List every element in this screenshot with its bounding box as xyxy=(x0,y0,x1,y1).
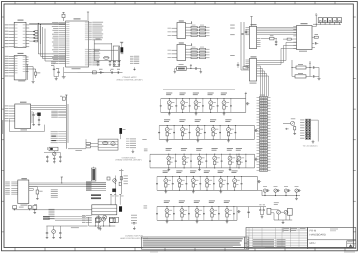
wire L from U10 bottom xyxy=(9,119,11,131)
ground for C7 C8 xyxy=(55,78,58,80)
sensor channel cell xyxy=(179,118,185,121)
sensor channel cell xyxy=(190,170,196,173)
dark net tags in stack B xyxy=(51,136,56,137)
U4 right short stubs xyxy=(257,38,261,40)
dark bar right of J4 xyxy=(119,207,122,212)
label far right xyxy=(142,138,146,141)
capacitor C15 xyxy=(99,71,101,73)
dark tags in lower stack xyxy=(43,216,50,217)
bottom middle parts row xyxy=(88,217,90,226)
row left end capacitor xyxy=(158,126,160,133)
wire to right circuit xyxy=(64,225,87,227)
circle part under J4 xyxy=(103,215,107,219)
IC U6 body xyxy=(297,26,313,50)
sensor channel cell xyxy=(204,170,210,173)
sensor channel cell xyxy=(194,200,200,203)
capacitor beside cell xyxy=(245,154,247,161)
capacitor beside cell xyxy=(199,177,201,184)
U2 right pins xyxy=(26,56,29,58)
ground under cell xyxy=(168,168,170,169)
sensor channel cell xyxy=(180,92,186,95)
row4 right extension rail xyxy=(258,189,263,191)
sensor row bottom rail xyxy=(159,138,254,140)
sensor row top rail xyxy=(150,153,255,155)
U6 right stub xyxy=(312,46,315,48)
sensor channel cell xyxy=(164,118,170,121)
resistor array RN1 beside U1 xyxy=(35,31,38,33)
capacitor beside cell xyxy=(217,99,219,106)
wire U1 to U3 row1 xyxy=(29,22,65,24)
crystal Y1 xyxy=(104,56,110,59)
frame zone ticks top xyxy=(14,2,16,5)
bus wire A2 xyxy=(42,27,44,59)
sensor channel cell xyxy=(196,147,202,150)
U9 left pins xyxy=(172,49,178,51)
U1 right pins xyxy=(26,24,29,26)
notes box xyxy=(142,237,245,249)
ground below U2 xyxy=(32,81,35,83)
faint note row xyxy=(163,88,235,91)
capacitor beside cell xyxy=(172,177,174,184)
row left end capacitor xyxy=(156,177,158,184)
box around oscillator xyxy=(49,147,58,151)
capacitor beside cell xyxy=(173,207,175,214)
vertical wire right xyxy=(120,169,122,194)
sensor row top rail xyxy=(161,98,246,100)
connector J2 long pin strip xyxy=(260,94,265,97)
capacitor C21 left of U4 xyxy=(241,33,243,35)
caps flanking Q2 xyxy=(46,226,48,233)
capacitor C14 xyxy=(93,71,97,74)
row end filter capacitor xyxy=(236,207,238,221)
U6 left pins xyxy=(293,26,296,28)
row end filter capacitor xyxy=(245,99,247,113)
top pin stubs xyxy=(110,195,112,205)
U5 left pins xyxy=(246,59,250,61)
transistor Q4 xyxy=(284,210,288,214)
wire U2 pin to pulldown xyxy=(27,64,29,80)
wire box around supervisor xyxy=(113,46,119,67)
sensor channel cell xyxy=(218,170,224,173)
capacitor beside cell xyxy=(202,99,204,106)
title block corner cell xyxy=(347,241,356,248)
U10 right stubs xyxy=(31,111,33,113)
capacitor C24 xyxy=(310,67,313,69)
sensor row top rail xyxy=(157,176,258,178)
ground under cell xyxy=(165,190,167,191)
capacitor C20 left of U4 xyxy=(245,31,247,33)
crystal Y3 ellipse xyxy=(103,141,109,144)
U2 left pins and net labels xyxy=(9,55,15,57)
ground under R31 xyxy=(36,194,38,198)
title block box xyxy=(308,228,356,249)
ground mid xyxy=(34,210,36,212)
sensor channel cell xyxy=(163,170,169,173)
wire R15 to power xyxy=(186,68,191,70)
row3 left label xyxy=(144,148,148,151)
transistor Q3 xyxy=(277,210,281,214)
small part right of J2 xyxy=(285,128,289,130)
sensor row bottom rail xyxy=(157,189,258,191)
capacitor C25 xyxy=(310,75,313,77)
sensor channel cell xyxy=(212,147,218,150)
ground under cell xyxy=(223,112,225,113)
margin zone text left xyxy=(2,120,3,134)
wire U1 pin to RN1 xyxy=(29,34,35,36)
IC U5 body xyxy=(249,59,256,82)
frame zone ticks left xyxy=(2,16,5,18)
ground right of C26 xyxy=(200,69,202,72)
resistor R12 xyxy=(296,66,306,69)
U9 top wire xyxy=(186,45,192,47)
capacitor C7 xyxy=(53,68,55,70)
resistor boxes left xyxy=(86,142,90,144)
filter capacitor on row4 extension xyxy=(295,189,298,192)
power T feeding J1 xyxy=(315,14,317,16)
svg-text:PR-M: PR-M xyxy=(310,230,317,233)
parts mid xyxy=(107,177,110,180)
IC U2 body xyxy=(14,56,26,80)
ground piezo xyxy=(282,220,284,222)
sensor row top rail xyxy=(159,125,254,127)
U11 left pins group2 xyxy=(11,187,17,189)
ground under cell xyxy=(168,112,170,113)
capacitor C40 xyxy=(13,206,17,209)
filter capacitor on row4 extension xyxy=(274,189,277,192)
IC U3 main controller body xyxy=(66,21,89,67)
resistor R15 xyxy=(177,67,187,71)
junction dots filter xyxy=(309,67,310,68)
ground under cell xyxy=(195,112,197,113)
dark part lower xyxy=(113,189,116,192)
sensor channel cell xyxy=(231,170,237,173)
wire U1 pin to RN1 xyxy=(29,37,35,39)
right labels of J4 xyxy=(131,214,137,217)
IC U1 body xyxy=(14,22,26,47)
row left end capacitor xyxy=(156,207,158,214)
sensor channel cell xyxy=(227,147,233,150)
revision table lower rows xyxy=(246,238,308,240)
ground under cell xyxy=(196,220,198,221)
revision table box xyxy=(246,228,308,249)
capacitor beside cell xyxy=(221,154,223,161)
ground bracket below label stack xyxy=(134,67,136,69)
U4 right pins to U6 bus xyxy=(257,26,297,28)
IC U10 body xyxy=(15,104,31,129)
ground bracket below xyxy=(132,150,134,152)
capacitor beside cell xyxy=(189,126,191,133)
wire U1 pin to RN1 xyxy=(29,31,35,33)
capacitor beside cell xyxy=(204,126,206,133)
capacitor beside cell xyxy=(173,126,175,133)
row left end capacitor xyxy=(149,154,151,161)
net label stack right of U7 xyxy=(130,55,134,57)
capacitor beside cell xyxy=(233,207,235,214)
capacitor beside cell xyxy=(230,99,232,106)
sensor channel cell xyxy=(236,147,242,150)
net label tags top xyxy=(91,194,101,196)
ground under cell xyxy=(166,220,168,221)
wires main controller xyxy=(90,143,98,145)
sensor channel cell xyxy=(181,147,187,150)
IC U4 body xyxy=(249,26,256,48)
IC U11 body xyxy=(18,180,29,204)
pullup R31 xyxy=(32,189,34,190)
connector J5 small xyxy=(267,208,271,214)
row left end capacitor xyxy=(160,99,162,106)
debug header 2x7 pads xyxy=(305,119,310,121)
wire U1 to U3 row2 xyxy=(29,24,65,26)
capacitor beside cell xyxy=(185,177,187,184)
capacitor C12 xyxy=(113,60,115,62)
U10 left pins xyxy=(9,105,15,107)
ground stub under U3 xyxy=(63,67,65,76)
power stub above U7 xyxy=(121,43,123,48)
sensor channel cell xyxy=(221,92,227,95)
resistor R10 xyxy=(270,37,274,40)
ground under cell xyxy=(229,168,231,169)
row end filter capacitor xyxy=(254,126,256,140)
power tap above R15 xyxy=(190,66,192,69)
svg-text:TO LCD (Bottom): TO LCD (Bottom) xyxy=(303,145,318,148)
junction wire under U11 xyxy=(13,209,92,211)
oscillator caps xyxy=(46,156,48,157)
ground under cell xyxy=(197,139,199,140)
row end filter capacitor xyxy=(254,154,256,168)
resistor R13 xyxy=(295,75,306,78)
capacitor C17 xyxy=(117,71,119,73)
sensor channel cell xyxy=(195,118,201,121)
ground under cell xyxy=(192,190,194,191)
header J1 socket boxes xyxy=(318,18,322,23)
left wires of J4 xyxy=(86,215,92,217)
sensor channel cell xyxy=(193,92,199,95)
capacitor beside cell xyxy=(203,207,205,214)
parts under J4 b xyxy=(109,217,113,222)
U3 left pins with net labels xyxy=(59,22,66,24)
capacitor beside cell xyxy=(213,177,215,184)
capacitor beside cell xyxy=(190,154,192,161)
net labels left of U4 xyxy=(230,24,235,27)
frame zone ticks right xyxy=(353,16,356,18)
oscillator wires xyxy=(46,147,48,150)
sensor row top rail xyxy=(157,206,237,208)
caption piezo xyxy=(274,201,279,204)
notes text lines xyxy=(143,238,243,239)
wire under U3 xyxy=(78,72,123,74)
wire rows to U11 xyxy=(86,182,106,184)
power arrow left xyxy=(61,177,63,180)
row5 right caps xyxy=(237,206,249,208)
sensor channel cell xyxy=(224,200,230,203)
U3 right pins lower group xyxy=(89,48,92,50)
sensor row bottom rail xyxy=(161,111,246,113)
input jack J3 circle xyxy=(291,121,295,125)
ground bottom middle xyxy=(99,226,101,229)
parts under J4 xyxy=(96,217,101,221)
capacitor C26 xyxy=(191,68,196,70)
connector J4 body xyxy=(92,205,117,215)
nested corner wires U5 to U6 lower pins xyxy=(286,41,297,43)
resistor R20 under J3 xyxy=(294,125,296,126)
polarized caps pair row5 xyxy=(249,206,266,208)
ground bracket left of R15 xyxy=(175,68,177,70)
resistor R5 vertical xyxy=(35,72,37,75)
capacitor beside cell xyxy=(219,126,221,133)
wire loop around crystal Y1 xyxy=(93,40,95,61)
polarized capacitor C16 xyxy=(111,71,113,73)
resistor R16 left of U5 xyxy=(243,67,248,70)
capacitor C10 xyxy=(97,60,99,62)
vertical bus mid-left xyxy=(65,95,67,149)
capacitor C23 right of U6 xyxy=(312,42,314,44)
sensor channel cell xyxy=(209,200,215,203)
ferrite FB1 right of U6 xyxy=(314,36,318,38)
U5 right pins to connector strip xyxy=(257,65,261,67)
row5 left label xyxy=(144,205,148,208)
sensor row bottom rail xyxy=(150,167,255,169)
debug header right wires xyxy=(311,119,319,121)
wire J1 to U6 pin xyxy=(312,26,316,28)
U8 top wire xyxy=(186,23,192,25)
sensor channel cell xyxy=(164,200,170,203)
polarized cap C42 xyxy=(33,206,37,210)
resistor R11 inline xyxy=(287,38,291,40)
capacitor C27 left of U5 xyxy=(237,64,239,66)
svg-text:(RS05) CONTROLLER (BF): (RS05) CONTROLLER (BF) xyxy=(116,159,142,162)
ground row4 extension xyxy=(296,196,298,199)
capacitor C22 with ground xyxy=(275,39,277,42)
vertical stubs through RN1 xyxy=(37,25,39,42)
IC U8 transceiver body xyxy=(177,23,186,39)
capacitor beside cell xyxy=(189,99,191,106)
dark part right of U10 xyxy=(38,113,41,116)
svg-text:(RS11) CONTROLLER (BF): (RS11) CONTROLLER (BF) xyxy=(117,78,143,81)
U8 left pins xyxy=(172,27,178,29)
U3 right pins upper group xyxy=(89,21,92,23)
capacitor C13 xyxy=(118,60,120,62)
box right piezo xyxy=(287,208,292,215)
U9 termination resistors xyxy=(186,48,192,50)
wire U1 pin to RN1 xyxy=(29,40,35,42)
sensor row bottom rail xyxy=(157,219,237,221)
wires power filter left xyxy=(292,67,296,69)
net label stack right of U11 xyxy=(51,188,58,191)
U11 left pins group1 xyxy=(11,181,17,183)
capacitor beside cell xyxy=(175,154,177,161)
filter capacitor on row4 extension xyxy=(284,189,287,192)
svg-text:MCU: MCU xyxy=(310,242,316,245)
U11 right long wires xyxy=(29,182,106,184)
net label stack B xyxy=(51,130,58,133)
labels right stack xyxy=(124,175,128,178)
transistor Q2 circle xyxy=(52,230,56,234)
ground under cell xyxy=(226,220,228,221)
capacitor C41 xyxy=(28,206,31,209)
caps right of U10 xyxy=(33,112,35,115)
revision table bottom row xyxy=(253,247,265,250)
transistor Q1 circle xyxy=(111,141,115,145)
debug header labels xyxy=(300,119,304,122)
wires lower stack to connector xyxy=(50,216,86,218)
sensor channel cell xyxy=(176,170,182,173)
supervisor U12 dark body xyxy=(120,128,122,133)
power arrow PWR1 xyxy=(309,62,311,64)
title block top right marks xyxy=(330,228,338,231)
supervisor U7 dark body xyxy=(121,48,123,53)
revision table entries xyxy=(253,238,274,241)
capacitor C11 xyxy=(109,60,111,62)
net label stack right of main controller xyxy=(126,138,130,140)
power feed row1 xyxy=(245,93,247,98)
sensor channel cell xyxy=(210,118,216,121)
ground under cell xyxy=(166,139,168,140)
net label stack lower xyxy=(49,208,55,211)
bus wire A1 xyxy=(40,25,42,57)
power arrow above bus xyxy=(65,95,67,98)
marks right of J4 xyxy=(133,221,135,223)
ground right of filter xyxy=(318,68,320,79)
sensor channel cell xyxy=(225,118,231,121)
resistor R30 top of bus xyxy=(62,97,65,100)
wires power filter right xyxy=(306,67,310,69)
sensor channel cell xyxy=(179,200,185,203)
net labels near C7 xyxy=(51,61,56,64)
ground under J4 xyxy=(98,215,100,228)
U4 left pins xyxy=(246,26,250,28)
page footer faint text xyxy=(344,251,355,252)
capacitor beside cell xyxy=(227,177,229,184)
filter capacitor on row4 extension xyxy=(263,189,266,192)
revision table columns xyxy=(248,228,250,249)
bus wire A0 xyxy=(37,23,39,54)
crystal circle Y2 xyxy=(53,152,57,156)
IC U9 transceiver body xyxy=(177,45,186,61)
row end filter capacitor xyxy=(257,177,259,191)
power stub above U3 right xyxy=(87,12,89,20)
power symbol above U3 xyxy=(62,14,65,17)
ground under R20 xyxy=(293,132,296,134)
revision table header cells xyxy=(282,228,284,233)
sensor channel cell xyxy=(208,92,214,95)
capacitor C31 xyxy=(38,119,40,121)
U10 right long wires xyxy=(31,105,67,107)
resistor pack vertical xyxy=(92,168,96,181)
capacitor beside cell xyxy=(236,154,238,161)
net label stack A xyxy=(51,110,58,113)
header J1 bottom wire xyxy=(313,23,341,25)
capacitor beside cell xyxy=(241,177,243,184)
small cells right of notes xyxy=(244,237,249,249)
sensor channel cell xyxy=(166,92,172,95)
svg-text:HANSBOARD: HANSBOARD xyxy=(310,234,327,237)
wire to main controller xyxy=(68,148,86,150)
frame zone ticks bottom xyxy=(14,248,16,251)
U8 termination resistors xyxy=(186,26,192,28)
capacitor C8 xyxy=(57,71,59,73)
power stub above U4 xyxy=(251,17,253,27)
capacitor beside cell xyxy=(205,154,207,161)
ground under cell xyxy=(220,190,222,191)
sensor channel cell xyxy=(166,147,172,150)
vertical supply wires left of U4 and U5 xyxy=(240,22,242,70)
ground under cell xyxy=(228,139,230,140)
capacitor beside cell xyxy=(175,99,177,106)
capacitor beside cell xyxy=(234,126,236,133)
capacitor beside cell xyxy=(218,207,220,214)
vertical wire mid xyxy=(114,176,116,195)
ground under cell xyxy=(198,168,200,169)
